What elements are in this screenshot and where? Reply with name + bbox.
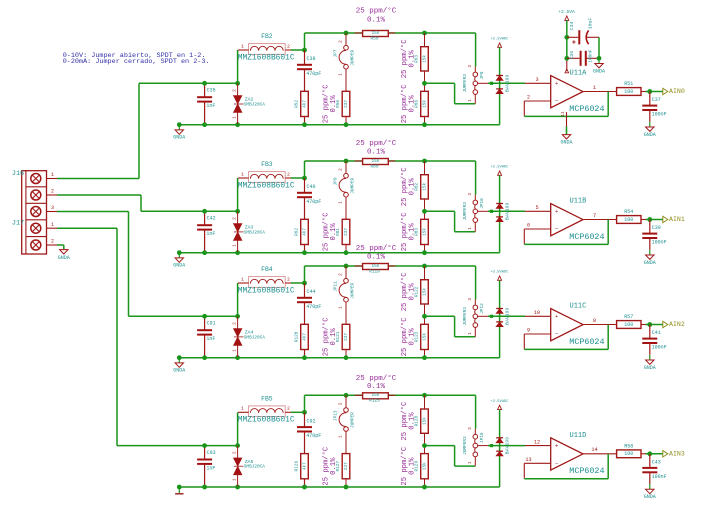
svg-text:0.1%: 0.1% [367,253,386,261]
svg-text:FB5: FB5 [261,396,273,403]
svg-text:C91: C91 [207,321,216,327]
svg-text:1: 1 [468,99,473,102]
svg-text:C34: C34 [569,22,575,31]
svg-text:1: 1 [339,201,344,204]
svg-text:C37: C37 [652,97,661,103]
svg-text:3: 3 [468,298,473,301]
svg-text:MMZ1608B601C: MMZ1608B601C [238,286,295,295]
svg-text:25 ppm/°C: 25 ppm/°C [356,374,397,383]
svg-text:2: 2 [51,189,54,195]
svg-text:1nF: 1nF [206,336,215,342]
svg-text:7: 7 [593,213,596,219]
svg-text:25 ppm/°C: 25 ppm/°C [356,139,397,148]
svg-text:2: 2 [287,171,290,177]
svg-text:100nF: 100nF [652,240,667,246]
svg-text:1: 1 [51,222,54,228]
svg-text:0.1%: 0.1% [367,383,386,391]
svg-text:15k: 15k [422,462,427,470]
svg-text:C36: C36 [570,51,575,59]
svg-text:100: 100 [624,451,633,457]
svg-text:MCP6024: MCP6024 [569,337,604,347]
svg-text:JUMPER: JUMPER [350,412,355,428]
svg-text:1: 1 [241,406,244,412]
svg-text:MMZ1608B601C: MMZ1608B601C [238,181,295,190]
svg-text:+: + [555,313,558,320]
svg-text:2: 2 [51,239,54,245]
svg-text:AIN0: AIN0 [669,88,685,95]
svg-text:2: 2 [339,40,344,43]
svg-text:1: 1 [339,306,344,309]
svg-text:+2.5VADC: +2.5VADC [491,38,509,42]
svg-text:9: 9 [527,328,530,334]
svg-text:U11C: U11C [570,303,587,311]
svg-text:0.1%: 0.1% [408,328,416,346]
svg-text:C42: C42 [207,216,216,222]
svg-text:100: 100 [624,217,633,223]
svg-text:10: 10 [534,310,540,316]
svg-text:6: 6 [527,223,530,229]
svg-text:2: 2 [287,43,290,49]
svg-text:AIN1: AIN1 [669,216,685,223]
svg-text:15k: 15k [422,100,427,108]
svg-text:15k: 15k [422,228,427,236]
svg-text:470pF: 470pF [306,71,321,77]
svg-text:0.1%: 0.1% [330,328,338,346]
svg-text:GNDA: GNDA [644,494,656,500]
svg-text:15k: 15k [371,264,379,269]
svg-text:R80: R80 [371,164,379,169]
svg-text:0.1%: 0.1% [408,412,416,430]
svg-text:R50: R50 [371,36,379,41]
svg-text:1: 1 [593,85,596,91]
svg-text:3: 3 [468,65,473,68]
svg-text:0.1%: 0.1% [408,95,416,113]
svg-text:0.1%: 0.1% [408,177,416,195]
svg-text:JUMPER3: JUMPER3 [463,74,468,93]
svg-text:1: 1 [51,172,54,178]
svg-text:13: 13 [525,457,531,463]
svg-text:+2.5VADC: +2.5VADC [491,166,509,170]
svg-text:MCP6024: MCP6024 [569,104,604,114]
svg-text:JUMPER3: JUMPER3 [463,202,468,221]
svg-text:100nF: 100nF [652,345,667,351]
svg-text:SMBJ20CA: SMBJ20CA [244,102,265,107]
svg-text:U11D: U11D [570,432,587,440]
svg-text:4k7: 4k7 [302,462,307,470]
svg-text:1: 1 [468,461,473,464]
svg-text:1: 1 [339,73,344,76]
svg-text:+2.5VADC: +2.5VADC [491,400,509,404]
svg-text:470pF: 470pF [306,304,321,310]
svg-text:R125: R125 [369,399,380,404]
svg-text:100: 100 [624,89,633,95]
svg-text:3: 3 [468,427,473,430]
svg-text:SMBJ20CA: SMBJ20CA [244,230,265,235]
svg-text:AIN3: AIN3 [669,450,685,457]
svg-text:GNDA: GNDA [173,368,185,374]
svg-text:JUMPER: JUMPER [350,283,355,299]
svg-text:+: + [555,80,558,87]
svg-text:15k: 15k [422,417,427,425]
svg-text:100: 100 [624,322,633,328]
svg-text:0.1%: 0.1% [408,457,416,475]
svg-text:FB3: FB3 [261,161,273,168]
svg-text:+: + [555,208,558,215]
svg-text:2: 2 [339,273,344,276]
svg-text:0-20mA: Jumper cerrado, SPDT e: 0-20mA: Jumper cerrado, SPDT en 2-3. [63,58,210,66]
svg-text:4k7: 4k7 [302,100,307,108]
svg-text:0.1%: 0.1% [408,50,416,68]
svg-text:MCP6024: MCP6024 [569,466,604,476]
svg-text:0.1%: 0.1% [330,223,338,241]
svg-text:3: 3 [51,205,54,211]
svg-text:1: 1 [468,332,473,335]
svg-text:0.1%: 0.1% [367,148,386,156]
svg-text:SMBJ20CA: SMBJ20CA [244,465,265,470]
svg-text:1: 1 [339,435,344,438]
svg-text:1nF: 1nF [206,231,215,237]
svg-text:BAV199: BAV199 [504,437,510,454]
svg-text:GNDA: GNDA [644,132,656,138]
svg-text:0.1%: 0.1% [367,17,386,25]
svg-text:GNDA: GNDA [173,263,185,269]
svg-text:100nF: 100nF [588,49,593,63]
svg-text:−: − [555,226,558,233]
svg-text:JUMPER3: JUMPER3 [463,436,468,455]
svg-text:GNDA: GNDA [644,260,656,266]
svg-text:15k: 15k [371,393,379,398]
svg-text:R120: R120 [295,331,300,342]
svg-text:14: 14 [591,447,597,453]
svg-text:15k: 15k [422,55,427,63]
svg-text:GNDA: GNDA [173,135,185,141]
svg-text:GNDA: GNDA [644,365,656,371]
svg-text:U11A: U11A [570,70,588,78]
svg-text:R57: R57 [624,314,633,320]
svg-text:237: 237 [344,228,349,236]
svg-text:AIN2: AIN2 [669,321,685,328]
svg-text:FB2: FB2 [261,33,273,40]
svg-text:1: 1 [241,171,244,177]
svg-text:MCP6024: MCP6024 [569,232,604,242]
svg-text:15k: 15k [422,288,427,296]
svg-text:C38: C38 [307,56,316,62]
svg-text:0.1%: 0.1% [408,283,416,301]
svg-text:+: + [555,442,558,449]
svg-text:470pF: 470pF [306,433,321,439]
svg-text:3: 3 [468,193,473,196]
svg-text:1nF: 1nF [206,103,215,109]
svg-text:C41: C41 [652,330,661,336]
svg-text:15k: 15k [422,333,427,341]
svg-text:2: 2 [339,168,344,171]
svg-text:C93: C93 [207,450,216,456]
svg-text:0.1%: 0.1% [408,223,416,241]
svg-text:2: 2 [287,406,290,412]
svg-text:1: 1 [468,227,473,230]
svg-text:3: 3 [535,77,538,83]
svg-text:R62: R62 [295,228,300,236]
svg-text:2: 2 [527,95,530,101]
svg-text:−: − [555,460,558,467]
svg-text:100nF: 100nF [652,474,667,480]
svg-text:C43: C43 [652,459,661,465]
svg-text:R51: R51 [624,81,633,87]
svg-text:JP13: JP13 [334,410,339,421]
svg-text:C39: C39 [652,225,661,231]
svg-text:25 ppm/°C: 25 ppm/°C [356,244,397,253]
svg-text:12: 12 [534,439,540,445]
svg-text:GNDA: GNDA [58,255,70,261]
svg-text:JP16: JP16 [480,432,485,443]
svg-text:237: 237 [344,462,349,470]
svg-text:JUMPER: JUMPER [350,178,355,194]
svg-text:2: 2 [339,402,344,405]
svg-text:−: − [555,331,558,338]
svg-text:1: 1 [241,43,244,49]
svg-text:C35: C35 [207,88,216,94]
svg-text:R58: R58 [624,444,633,450]
svg-text:SMBJ20CA: SMBJ20CA [244,335,265,340]
svg-text:11: 11 [560,111,566,117]
svg-text:JP9: JP9 [334,177,339,185]
svg-text:MMZ1608B601C: MMZ1608B601C [238,53,295,62]
svg-text:C40: C40 [307,184,316,190]
svg-text:15k: 15k [371,31,379,36]
svg-text:15k: 15k [371,159,379,164]
svg-text:4k7: 4k7 [302,333,307,341]
svg-text:R54: R54 [624,209,633,215]
svg-text:8: 8 [593,318,596,324]
svg-text:JP12: JP12 [480,303,485,314]
svg-text:U11B: U11B [570,198,587,206]
svg-text:1nF: 1nF [206,465,215,471]
svg-text:J16: J16 [12,170,24,178]
svg-text:J17: J17 [12,220,24,228]
svg-text:100nF: 100nF [652,112,667,118]
svg-text:FB4: FB4 [261,266,273,273]
svg-text:2: 2 [287,276,290,282]
svg-text:GNDA: GNDA [593,68,605,74]
svg-text:237: 237 [344,100,349,108]
svg-text:1: 1 [241,276,244,282]
svg-text:BAV199: BAV199 [504,203,510,220]
svg-text:15k: 15k [422,182,427,190]
svg-text:MMZ1608B601C: MMZ1608B601C [238,416,295,425]
svg-text:JP11: JP11 [334,281,339,292]
svg-text:4k7: 4k7 [302,228,307,236]
svg-text:+2.5VADC: +2.5VADC [491,271,509,275]
svg-text:BAV199: BAV199 [504,308,510,325]
svg-text:+2.5VA: +2.5VA [558,9,575,15]
svg-text:0.1%: 0.1% [330,457,338,475]
svg-text:R52: R52 [295,100,300,108]
svg-text:25 ppm/°C: 25 ppm/°C [356,7,397,16]
svg-text:JP8: JP8 [480,71,485,79]
svg-text:−: − [555,98,558,105]
svg-text:470pF: 470pF [306,199,321,205]
svg-text:R126: R126 [295,461,300,472]
svg-text:JUMPER: JUMPER [350,50,355,66]
svg-text:GNDA: GNDA [560,139,572,145]
svg-text:R119: R119 [369,269,380,274]
svg-text:BAV199: BAV199 [504,75,510,92]
svg-text:10uF: 10uF [587,18,593,30]
svg-text:237: 237 [344,333,349,341]
svg-text:C92: C92 [307,418,316,424]
svg-text:JUMPER3: JUMPER3 [463,307,468,326]
svg-text:0.1%: 0.1% [330,95,338,113]
svg-text:JP10: JP10 [480,198,485,209]
svg-text:JP7: JP7 [334,49,339,57]
svg-text:C44: C44 [307,289,316,295]
svg-text:5: 5 [535,205,538,211]
